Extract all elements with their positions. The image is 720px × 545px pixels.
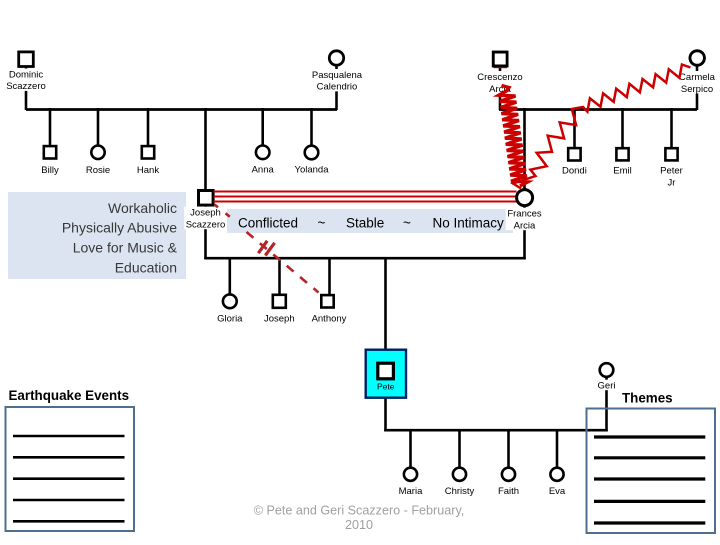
svg-text:2010: 2010 [345,518,373,532]
svg-text:Billy: Billy [41,165,59,176]
svg-text:Joseph: Joseph [190,208,221,219]
svg-text:Love for Music &: Love for Music & [73,240,178,256]
svg-text:Dondi: Dondi [562,165,587,176]
svg-text:Emil: Emil [613,165,631,176]
svg-text:No Intimacy: No Intimacy [433,216,505,231]
svg-text:Peter: Peter [660,165,683,176]
svg-text:Hank: Hank [137,165,159,176]
svg-text:Yolanda: Yolanda [295,165,330,176]
svg-text:Themes: Themes [622,391,673,406]
svg-text:~: ~ [403,216,411,231]
svg-text:Frances: Frances [507,209,542,220]
svg-text:Anna: Anna [252,165,275,176]
svg-text:Jr: Jr [668,177,676,188]
svg-text:Earthquake Events: Earthquake Events [9,388,130,403]
svg-text:Geri: Geri [598,381,616,392]
svg-text:Conflicted: Conflicted [238,216,298,231]
svg-text:Workaholic: Workaholic [108,200,177,216]
svg-text:Serpico: Serpico [681,84,713,95]
svg-text:Christy: Christy [445,486,475,497]
svg-text:Faith: Faith [498,486,519,497]
svg-text:Arcia: Arcia [514,221,536,232]
svg-text:Joseph: Joseph [264,314,295,325]
svg-text:Maria: Maria [399,486,423,497]
svg-text:Calendrio: Calendrio [317,82,358,93]
svg-text:Scazzero: Scazzero [186,220,226,231]
svg-text:© Pete and Geri Scazzero - Feb: © Pete and Geri Scazzero - February, [254,504,465,518]
svg-text:Eva: Eva [549,486,566,497]
svg-text:Education: Education [115,260,177,276]
svg-text:Dominic: Dominic [9,69,44,80]
svg-text:Scazzero: Scazzero [6,81,46,92]
svg-text:Physically Abusive: Physically Abusive [62,220,177,236]
svg-text:Pasqualena: Pasqualena [312,70,363,81]
svg-text:Crescenzo: Crescenzo [477,72,522,83]
svg-text:Anthony: Anthony [312,314,347,325]
svg-text:Gloria: Gloria [217,314,243,325]
svg-text:Pete: Pete [377,382,395,392]
svg-text:~: ~ [318,216,326,231]
svg-text:Rosie: Rosie [86,165,110,176]
svg-text:Stable: Stable [346,216,384,231]
svg-text:Carmela: Carmela [679,72,716,83]
